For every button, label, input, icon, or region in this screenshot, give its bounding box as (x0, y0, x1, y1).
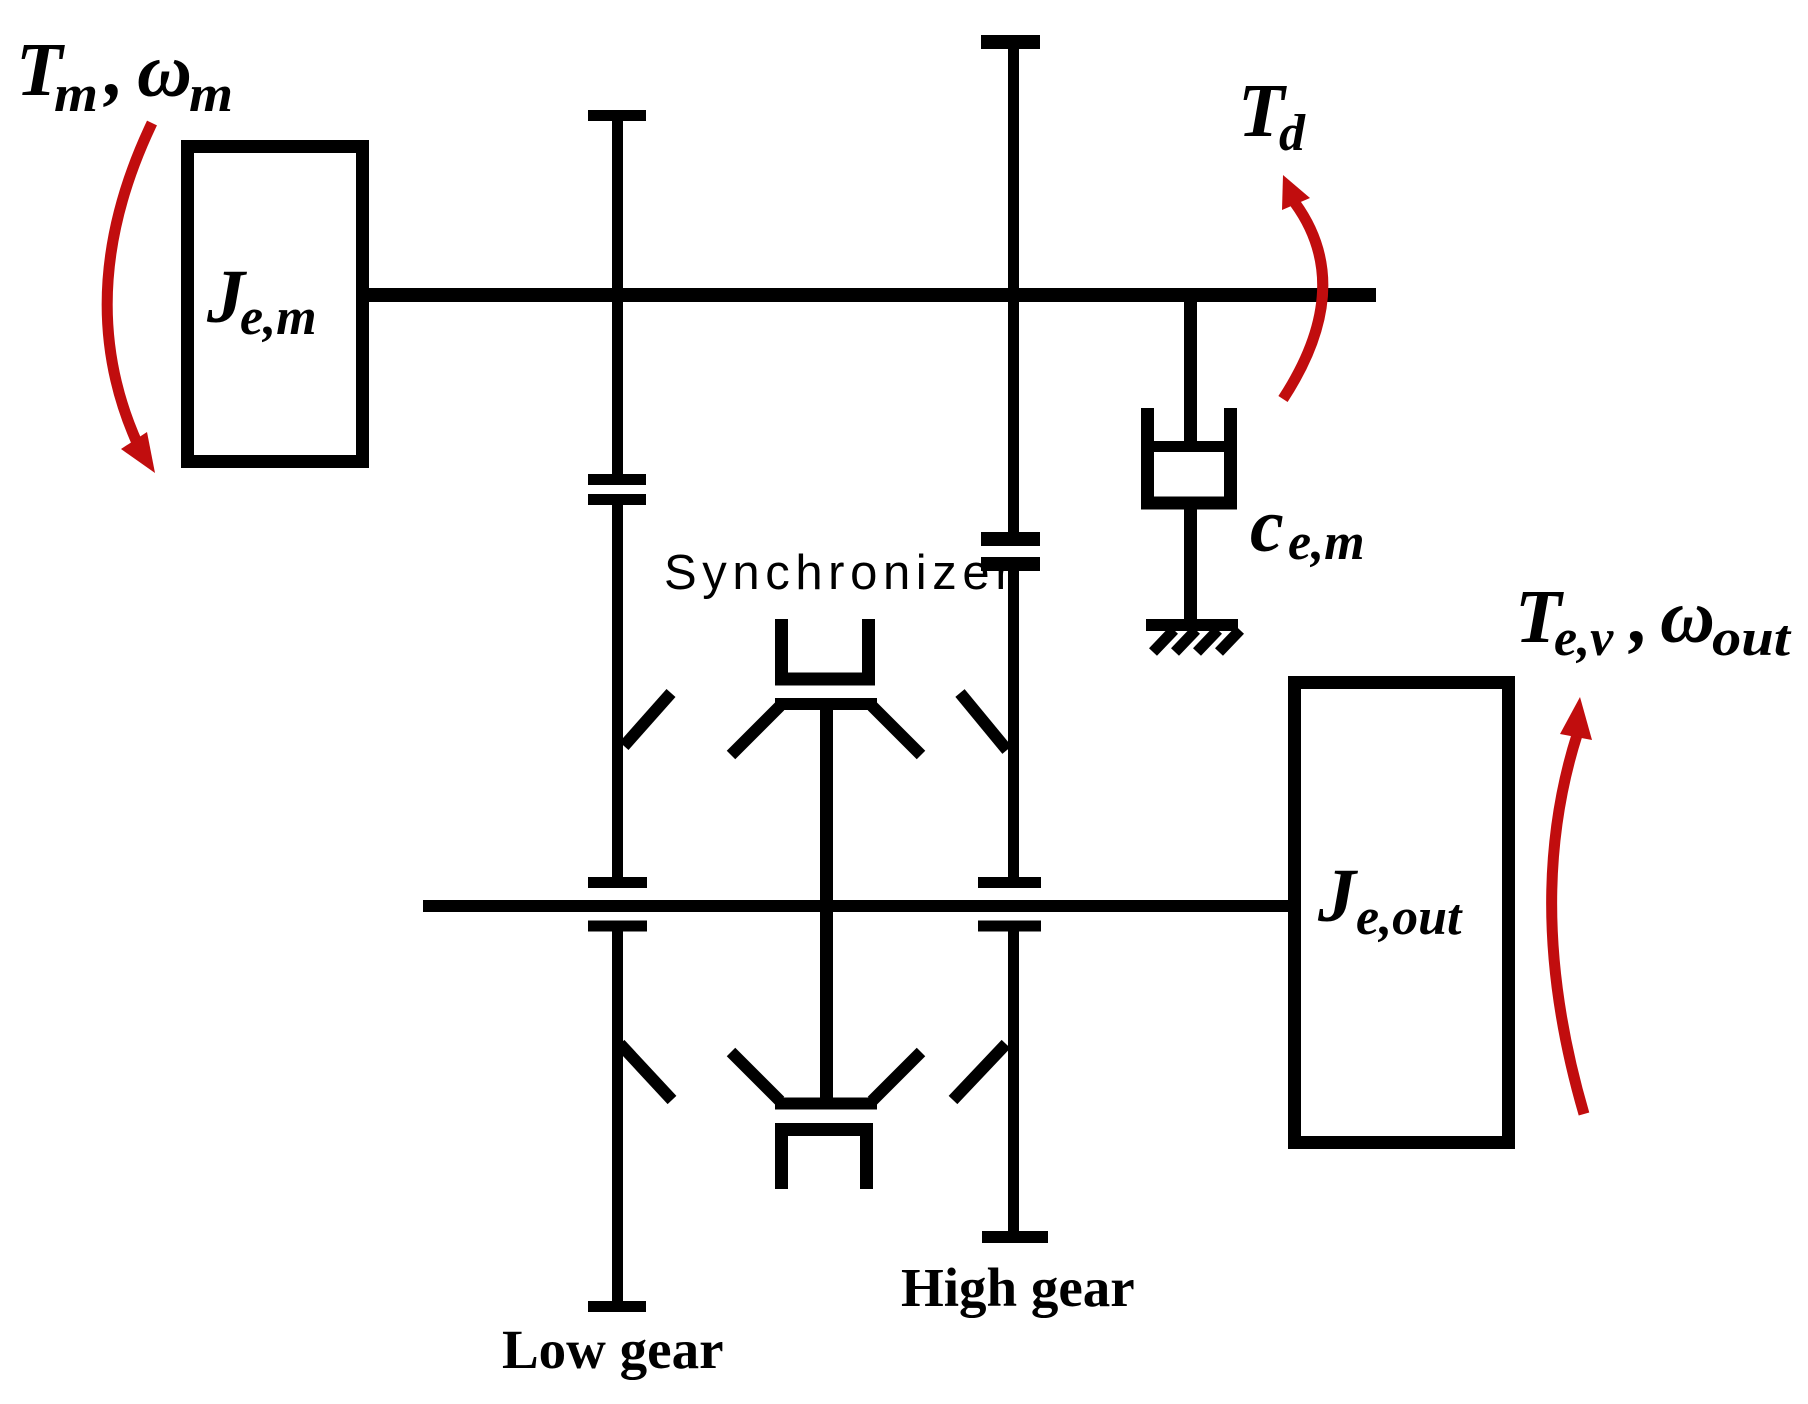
low gear shaft: bottom T-bar (588, 1301, 646, 1312)
label T_d (1238, 69, 1306, 162)
high gear shaft: upper segment (1008, 40, 1019, 539)
torque arrow T_m (red arc) (107, 123, 155, 473)
svg-text:,: , (103, 28, 124, 112)
high gear shaft: top T-bar (981, 35, 1040, 49)
low gear shaft: upper segment (612, 113, 623, 480)
label T_m, omega_m (16, 28, 233, 123)
synchronizer sleeve shaft (820, 706, 833, 1100)
label High gear (901, 1257, 1135, 1318)
ground hatching (1153, 630, 1240, 652)
low gear shaft: top T-bar (588, 110, 646, 121)
input shaft (top) (369, 288, 1376, 302)
synchro tooth upper-left (624, 693, 671, 746)
high gear shaft: middle segment (1008, 564, 1019, 883)
synchronizer lower cone (731, 1052, 921, 1104)
low gear shaft: middle segment (612, 499, 623, 883)
inertia block J_e,out (1295, 683, 1509, 1143)
svg-text:High gear: High gear (901, 1257, 1135, 1318)
synchronizer upper fork (782, 619, 869, 679)
svg-text:m: m (189, 66, 233, 123)
label Low gear (502, 1319, 723, 1380)
output shaft (bottom) (423, 900, 1288, 912)
torque arrow T_e,v (red arc) (1552, 697, 1592, 1114)
synchro tooth upper-right (960, 693, 1007, 750)
low gear clutch plates (588, 480, 646, 500)
label T_e,v, omega_out (1515, 575, 1792, 667)
torque arrow T_d (red arc) (1282, 175, 1323, 399)
damper cylinder (1148, 408, 1231, 503)
svg-text:out: out (1712, 610, 1792, 667)
low gear mesh at output shaft (588, 883, 647, 927)
high gear shaft: lower segment (1008, 926, 1019, 1237)
damper rod lower (1184, 503, 1197, 625)
ground bar (1146, 619, 1238, 631)
high gear clutch plates (981, 539, 1040, 564)
svg-text:c: c (1250, 484, 1284, 568)
label Synchronizer (664, 546, 1017, 600)
synchronizer lower fork (782, 1130, 867, 1190)
svg-text:e,m: e,m (1288, 514, 1365, 571)
label c_e,m (1250, 484, 1365, 571)
high gear shaft: bottom T-bar (982, 1231, 1048, 1243)
svg-text:d: d (1279, 105, 1306, 162)
svg-text:ω: ω (137, 29, 192, 113)
svg-text:e,v: e,v (1554, 610, 1614, 667)
svg-text:ω: ω (1660, 575, 1715, 659)
synchro tooth lower-right (953, 1044, 1006, 1100)
svg-text:Synchronizer: Synchronizer (664, 546, 1017, 600)
svg-text:,: , (1628, 575, 1649, 659)
svg-text:e,out: e,out (1356, 889, 1463, 946)
svg-text:Low gear: Low gear (502, 1319, 723, 1380)
svg-text:e,m: e,m (240, 289, 317, 346)
svg-text:m: m (54, 66, 98, 123)
svg-text:J: J (1317, 854, 1358, 938)
synchro tooth lower-left (620, 1044, 672, 1100)
inertia block J_e,m (188, 147, 363, 462)
damper rod upper (1184, 295, 1197, 446)
synchronizer upper cone (731, 704, 921, 755)
damper piston (1154, 441, 1224, 452)
high gear mesh at output shaft (978, 883, 1041, 927)
low gear shaft: lower segment (612, 926, 623, 1307)
